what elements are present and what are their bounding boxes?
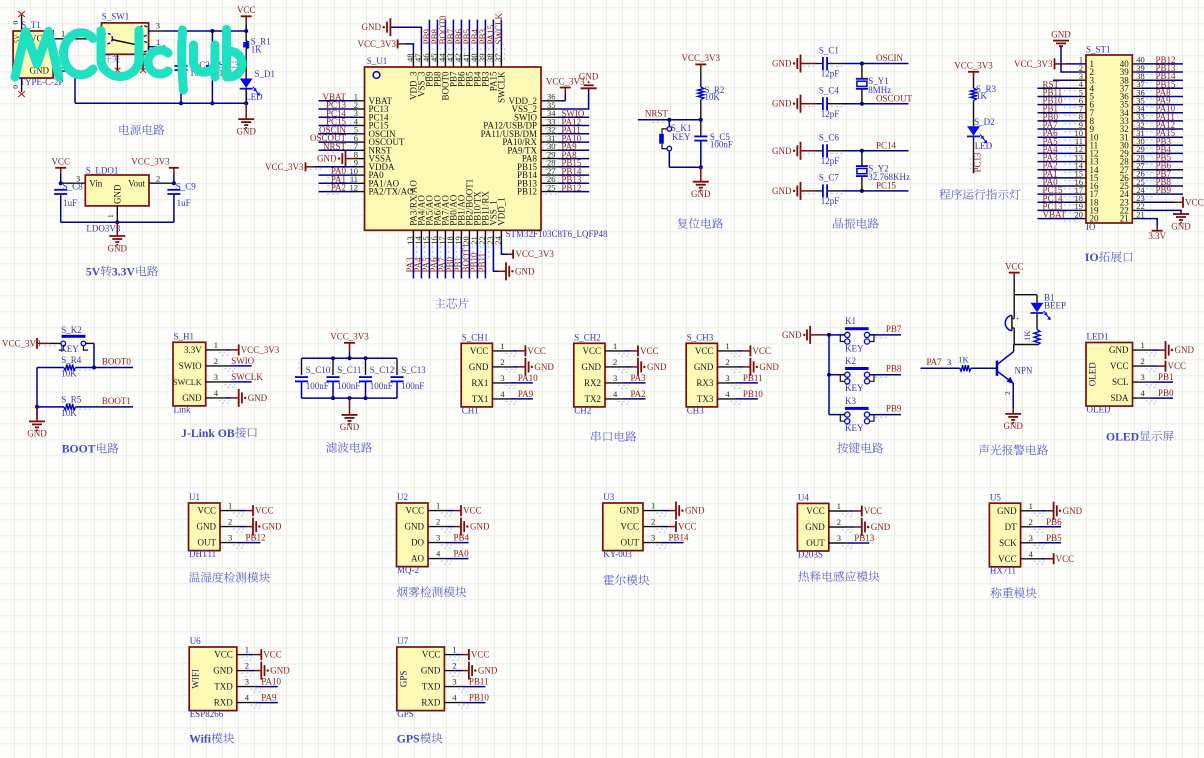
svg-text:1: 1: [500, 341, 504, 351]
svg-text:GND: GND: [1109, 345, 1129, 355]
junction bottom rail at LED: [244, 101, 248, 105]
capacitor S_C12 100nF: [359, 358, 394, 398]
U1 pin 25 PB12: [517, 182, 589, 196]
svg-text:GND: GND: [362, 22, 382, 32]
svg-text:PA2: PA2: [331, 183, 346, 193]
ST1 pin 16 row: [1038, 177, 1184, 191]
ST1 pin 6 row: [1038, 95, 1184, 109]
svg-text:SWCLK: SWCLK: [494, 12, 504, 44]
U1 pin 22 PB11/RX: [477, 191, 491, 279]
svg-text:GND: GND: [997, 506, 1017, 516]
svg-text:1uF: 1uF: [177, 198, 191, 208]
svg-text:S_D2: S_D2: [974, 117, 995, 127]
label J-Link OB port: [181, 427, 257, 440]
svg-text:S_SW1: S_SW1: [102, 12, 130, 22]
svg-text:3.3V: 3.3V: [112, 265, 136, 278]
svg-text:GND: GND: [620, 506, 640, 516]
ST1 pin 11 row: [1038, 136, 1184, 150]
ST1 pin 10 row: [1038, 128, 1184, 142]
wire OSCIN row: [843, 53, 909, 63]
svg-text:1: 1: [436, 501, 440, 511]
svg-text:3: 3: [245, 677, 249, 687]
capacitor S_C4 12pF: [803, 86, 845, 119]
ST1 pin 9 row: [1038, 120, 1184, 134]
U1 pin 10 PA0: [319, 166, 385, 180]
svg-text:PB11: PB11: [477, 253, 487, 273]
U1 pin 37 SWCLK: [493, 12, 507, 103]
svg-text:KY-003: KY-003: [603, 549, 632, 559]
svg-text:D203S: D203S: [798, 550, 823, 560]
svg-text:J-Link OB: J-Link OB: [181, 427, 235, 440]
U5 HX711: [989, 492, 1020, 575]
resistor 1K alarm: [1022, 329, 1040, 345]
svg-text:PC14: PC14: [876, 141, 897, 151]
svg-text:DT: DT: [1005, 522, 1017, 532]
svg-text:IO: IO: [1085, 251, 1099, 264]
keys left rail: [828, 335, 830, 415]
power flag VCC_3V3 filter: [330, 332, 369, 359]
label DHT11 module: [189, 572, 270, 583]
ground GND for LDO: [108, 222, 128, 253]
svg-text:VCC_3V3: VCC_3V3: [265, 162, 304, 172]
svg-text:PA2: PA2: [631, 389, 646, 399]
U1 pin 47 VSS_3: [362, 18, 427, 97]
wire T1 pin1 to switch: [53, 29, 101, 42]
svg-text:GPS: GPS: [398, 671, 408, 688]
svg-text:1: 1: [452, 645, 456, 655]
svg-text:VCC: VCC: [471, 650, 490, 660]
svg-text:GND: GND: [871, 522, 891, 532]
connector S_T1 TYPE-C-2P: [13, 20, 63, 87]
svg-text:5V: 5V: [86, 265, 101, 278]
wire BOOT0 net: [76, 357, 134, 370]
S_CH1 pin 4 TX1: [472, 389, 534, 404]
svg-text:VCC_3V3: VCC_3V3: [954, 61, 993, 71]
svg-text:VCC: VCC: [470, 346, 489, 356]
U1 pin 46 PB9: [421, 20, 435, 87]
svg-text:S_H1: S_H1: [174, 332, 195, 342]
svg-text:BOOT: BOOT: [62, 443, 96, 456]
pushbutton S_K1 KEY vertical: [659, 120, 691, 168]
junction boot rail BOOT1: [35, 405, 39, 409]
svg-text:S_ST1: S_ST1: [1086, 45, 1111, 55]
svg-text:S_D1: S_D1: [255, 69, 276, 79]
svg-text:2: 2: [500, 357, 504, 367]
svg-text:2: 2: [436, 517, 440, 527]
U1 pin 32 PA11/USB/DM: [481, 125, 590, 139]
pushbutton S_K2 KEY: [44, 325, 88, 354]
regulator S_LDO1 LDO3V3: [85, 165, 149, 233]
svg-text:PB14: PB14: [669, 533, 690, 543]
svg-text:VCC: VCC: [806, 506, 825, 516]
svg-text:GND: GND: [1175, 345, 1195, 355]
svg-text:SCK: SCK: [999, 538, 1017, 548]
svg-text:4: 4: [452, 693, 457, 703]
power flag VCC_3V3 for LDO out: [131, 156, 179, 183]
ground GND reset: [691, 167, 711, 199]
svg-text:GND: GND: [470, 522, 490, 532]
svg-text:1: 1: [228, 501, 232, 511]
svg-text:PB1: PB1: [1158, 372, 1174, 382]
ST1 pin 5 row: [1038, 87, 1184, 101]
ST1 pin 12 row: [1038, 144, 1184, 158]
svg-text:U4: U4: [798, 493, 809, 503]
LED1 pin 4 SDA: [1110, 388, 1174, 403]
power flag VCC_3V3 for ST1 pin1: [1014, 58, 1086, 69]
svg-text:S_LDO1: S_LDO1: [86, 165, 119, 175]
SW1 pin1 stub unconnected: [149, 37, 166, 48]
U1 pin 45 PB8: [429, 20, 443, 87]
svg-text:GND: GND: [772, 186, 792, 196]
junction OSCIN: [860, 62, 864, 66]
junction NRST at key: [667, 118, 671, 122]
svg-text:VCC: VCC: [463, 506, 482, 516]
U3 pin 3 OUT: [621, 533, 690, 548]
U3 KY-003: [603, 492, 643, 559]
U1 pin 7 NRST: [319, 141, 393, 155]
svg-text:BEEP: BEEP: [1044, 301, 1066, 311]
svg-text:1: 1: [837, 501, 841, 511]
U1 pin 17 PA7/AO: [437, 195, 451, 279]
svg-text:GND: GND: [213, 666, 233, 676]
svg-text:GND: GND: [317, 154, 337, 164]
svg-text:VCC: VCC: [237, 5, 256, 15]
svg-text:S_C7: S_C7: [819, 173, 840, 183]
capacitor S_C2 104: [175, 31, 210, 103]
ST1 pin 18 row: [1038, 193, 1130, 207]
label GPS module: [397, 733, 443, 746]
svg-text:MQ-2: MQ-2: [397, 565, 419, 575]
svg-text:K1: K1: [845, 316, 856, 326]
junction keys rail K2: [827, 373, 831, 377]
U1 pin 33 PA12/USB/DP: [483, 116, 589, 130]
svg-text:12pF: 12pF: [821, 156, 840, 166]
S_CH3 CH3: [686, 333, 717, 416]
svg-text:PB12: PB12: [517, 187, 537, 197]
svg-text:3: 3: [837, 533, 841, 543]
power flag VCC_3V3 indicator: [954, 61, 993, 88]
U1 pin 19 PB1/AO: [453, 194, 467, 278]
U1 pin 5 OSCIN: [319, 125, 397, 139]
svg-text:20: 20: [1075, 209, 1084, 219]
label power circuit: [120, 124, 165, 135]
svg-text:1: 1: [725, 341, 729, 351]
alarm mid wire collector node: [1014, 344, 1037, 347]
S_CH1 pin 2 GND: [469, 357, 554, 376]
switch label: [103, 54, 120, 62]
wire K3 to PB9: [829, 404, 902, 418]
wire SW1 pin3 to VCC rail: [149, 20, 247, 31]
reset bottom wire: [669, 166, 701, 168]
svg-text:PB7: PB7: [886, 324, 902, 334]
svg-text:1: 1: [245, 645, 249, 655]
svg-text:BOOT1: BOOT1: [102, 396, 131, 406]
svg-text:S_U1: S_U1: [367, 56, 388, 66]
S_CH1 CH1: [461, 333, 492, 416]
S_CH2 pin 2 GND: [582, 357, 667, 376]
svg-text:PB5: PB5: [1046, 533, 1062, 543]
svg-text:VCC: VCC: [527, 346, 546, 356]
svg-text:1: 1: [214, 340, 218, 350]
svg-text:GND: GND: [515, 266, 535, 276]
svg-text:3: 3: [1141, 372, 1145, 382]
svg-text:GND: GND: [1051, 30, 1071, 40]
ST1 pin 19 row: [1038, 201, 1129, 215]
wire PC14 row: [843, 141, 909, 151]
ST1 pin 7 row: [1038, 104, 1184, 118]
svg-text:PA9: PA9: [261, 693, 277, 703]
U1 pin 36 VDD_2: [509, 76, 586, 106]
svg-text:TX3: TX3: [697, 394, 714, 404]
svg-text:PB12: PB12: [561, 183, 581, 193]
svg-text:S_CH2: S_CH2: [574, 333, 601, 343]
U1 pin 4 PC15: [319, 116, 390, 130]
ground port for S_C4: [772, 95, 815, 113]
ST1 pin 17 row: [1038, 185, 1184, 199]
svg-text:PC13: PC13: [972, 152, 982, 173]
svg-text:SWCLK: SWCLK: [496, 71, 506, 103]
svg-text:VCC: VCC: [405, 506, 424, 516]
svg-text:GND: GND: [1063, 506, 1083, 516]
T1 bottom stub with no-ERC cross: [11, 78, 25, 97]
header S_ST1 IO body: [1086, 45, 1132, 232]
label 5V to 3.3V circuit: [86, 265, 158, 278]
S_CH3 pin 2 GND: [694, 357, 779, 376]
U4 pin 2 GND: [805, 517, 890, 536]
svg-text:VCC: VCC: [214, 650, 233, 660]
label alarm circuit: [979, 444, 1048, 455]
svg-text:RXD: RXD: [214, 698, 234, 708]
junction top rail at C3: [210, 29, 214, 33]
U1 pin 21 PB10/TX: [469, 191, 483, 279]
resistor S_R1 1K: [243, 31, 271, 79]
ground GND alarm: [1003, 408, 1023, 431]
svg-text:1: 1: [1029, 501, 1033, 511]
svg-text:10K: 10K: [704, 92, 720, 102]
resistor 1K base: [958, 354, 997, 371]
svg-text:VCC_3V3: VCC_3V3: [330, 332, 369, 342]
wire LDO pin2 Vout: [149, 173, 174, 183]
svg-text:SCL: SCL: [1112, 377, 1129, 387]
U1 DHT11: [189, 492, 221, 559]
T1 top stub with no-ERC cross: [11, 11, 25, 31]
S_CH2 pin 3 RX2: [584, 373, 646, 388]
svg-text:GND: GND: [236, 126, 256, 136]
svg-text:3.3V: 3.3V: [1148, 231, 1166, 241]
svg-text:HX711: HX711: [990, 565, 1016, 575]
led S_D1: [240, 69, 275, 103]
svg-text:4: 4: [436, 549, 441, 559]
wire PC15 row: [843, 181, 909, 191]
capacitor S_C10 100nF: [295, 358, 331, 398]
svg-text:Vout: Vout: [128, 178, 145, 188]
svg-text:PA9: PA9: [518, 389, 534, 399]
junction keys rail K1: [827, 333, 831, 337]
svg-text:TX1: TX1: [472, 394, 489, 404]
wire K2 to PB8: [829, 364, 902, 378]
junction bottom rail at C3: [210, 101, 214, 105]
svg-text:CH2: CH2: [574, 406, 591, 416]
svg-text:2: 2: [156, 173, 160, 183]
S_CH2 pin 1 VCC: [582, 341, 658, 357]
svg-text:VCC: VCC: [1168, 361, 1187, 371]
S_H1 pin 1 3.3V: [184, 340, 280, 356]
svg-text:32.768KHz: 32.768KHz: [868, 172, 910, 182]
U7 GPS: [397, 636, 445, 719]
U6 pin 3 TXD: [214, 677, 281, 692]
U1 pin 27 PB14: [517, 166, 589, 180]
svg-text:WIFI: WIFI: [191, 669, 201, 689]
svg-text:DO: DO: [411, 538, 424, 548]
svg-text:25: 25: [547, 182, 556, 192]
U5 pin 4 VCC: [998, 549, 1074, 565]
wire ST1 pin3: [1053, 79, 1086, 81]
U7 pin 3 TXD: [422, 677, 489, 692]
U5 pin 1 GND: [997, 501, 1082, 520]
svg-text:21: 21: [1120, 214, 1129, 224]
U1 pin 42 PB6: [453, 20, 467, 87]
label wifi module: [189, 733, 234, 746]
U2 pin 4 AO: [411, 549, 469, 564]
svg-text:2: 2: [1003, 391, 1012, 395]
U1 pin 48 VDD_3: [357, 39, 418, 100]
junction LDO gnd: [115, 220, 119, 224]
svg-text:2: 2: [245, 661, 249, 671]
svg-text:VCC_3V3: VCC_3V3: [515, 249, 554, 259]
U7 pin 2 GND: [421, 661, 498, 680]
svg-text:OLED: OLED: [1087, 405, 1111, 415]
U1 pin 3 PC14: [319, 108, 390, 122]
svg-text:100nF: 100nF: [710, 140, 733, 150]
svg-text:S_CH1: S_CH1: [462, 333, 489, 343]
svg-text:VCC: VCC: [640, 346, 659, 356]
power flag VCC for LDO: [51, 157, 70, 184]
svg-text:PB9: PB9: [886, 404, 902, 414]
svg-text:SDA: SDA: [1110, 393, 1129, 403]
svg-text:2: 2: [837, 517, 841, 527]
power flag VCC: [237, 5, 256, 31]
ground port for S_C6: [772, 142, 815, 160]
svg-text:BOOT0: BOOT0: [102, 357, 131, 367]
svg-text:LDO3V3: LDO3V3: [86, 224, 120, 234]
S_CH2 CH2: [574, 333, 605, 416]
svg-text:VCC: VCC: [263, 650, 282, 660]
U1 pin 8 VSSA: [317, 149, 392, 167]
U6 pin 2 GND: [213, 661, 290, 680]
svg-text:VCC_3V3: VCC_3V3: [682, 53, 721, 63]
svg-text:SWIO: SWIO: [179, 361, 202, 371]
svg-text:S_C9: S_C9: [176, 182, 197, 192]
svg-text:2: 2: [1141, 356, 1145, 366]
svg-text:VCC: VCC: [1005, 261, 1024, 271]
svg-text:GND: GND: [579, 71, 599, 81]
U1 pin 14 PA4/AO: [413, 195, 427, 279]
junction filter bottom at 365.5: [364, 396, 368, 400]
svg-text:GND: GND: [691, 189, 711, 199]
pushbutton K3 KEY: [840, 396, 874, 433]
U1 pin 23 VSS_1: [485, 200, 535, 280]
label MQ-2 module: [397, 586, 466, 597]
svg-text:3: 3: [228, 533, 232, 543]
svg-text:KEY: KEY: [672, 132, 691, 142]
U1 pin 12 PA2/TX/AO: [319, 182, 415, 196]
svg-text:3.3V: 3.3V: [184, 345, 202, 355]
svg-text:VCC: VCC: [678, 522, 697, 532]
svg-text:PB10: PB10: [743, 389, 764, 399]
U4 pin 3 OUT: [806, 533, 875, 548]
svg-text:1uF: 1uF: [63, 198, 77, 208]
svg-text:+: +: [1016, 315, 1020, 323]
label serial circuit: [591, 431, 636, 442]
U1 pin 1 VCC: [197, 501, 273, 516]
svg-text:S_C6: S_C6: [819, 133, 840, 143]
ST1 pin 8 row: [1038, 112, 1184, 126]
ground GND power rail: [236, 103, 256, 136]
capacitor S_C1 12pF: [803, 45, 845, 78]
svg-text:20: 20: [1090, 214, 1100, 224]
wire PA7 base: [921, 357, 960, 368]
mcu U1 STM32F103C8T6 body: [365, 56, 609, 239]
svg-text:1K: 1K: [976, 91, 988, 101]
filter top rail: [302, 357, 398, 359]
svg-text:4: 4: [1029, 549, 1034, 559]
ground GND boot: [27, 407, 47, 439]
svg-text:12pF: 12pF: [821, 69, 840, 79]
S_H1 pin 2 SWIO: [179, 356, 255, 371]
U1 pin 2 PC13: [319, 100, 390, 114]
svg-text:TXD: TXD: [422, 682, 441, 692]
svg-text:PB8: PB8: [886, 364, 902, 374]
U1 pin 39 PB3: [477, 20, 491, 87]
U1 pin 6 OSCOUT: [310, 133, 405, 147]
junction VCC rail: [244, 29, 248, 33]
alarm top wire: [1014, 294, 1037, 296]
svg-text:KEY: KEY: [60, 344, 79, 354]
junction BOOT0: [92, 366, 96, 370]
ground GND for ST1 pin22: [1132, 201, 1191, 231]
wire K2 to BOOT0: [86, 343, 94, 367]
svg-text:0: 0: [11, 21, 20, 25]
buzzer B1 BEEP: [1005, 295, 1019, 345]
U2 MQ-2: [397, 492, 429, 575]
svg-text:PB12: PB12: [246, 533, 266, 543]
svg-text:VCC: VCC: [582, 346, 601, 356]
svg-text:DHT11: DHT11: [189, 549, 216, 559]
ground GND for ST1 pin2: [1051, 30, 1086, 72]
svg-text:100nF: 100nF: [370, 381, 393, 391]
svg-text:PB6: PB6: [1046, 517, 1062, 527]
svg-text:PB0: PB0: [1158, 388, 1174, 398]
svg-text:GND: GND: [805, 522, 825, 532]
svg-text:GND: GND: [197, 522, 217, 532]
resistor S_R4 10K: [37, 355, 82, 378]
svg-text:1: 1: [613, 341, 617, 351]
svg-text:GND: GND: [27, 429, 47, 439]
junction filter top at 365.5: [364, 356, 368, 360]
svg-text:10K: 10K: [61, 368, 77, 378]
junction top rail at C2: [179, 29, 183, 33]
capacitor S_C3 104: [206, 31, 239, 103]
svg-text:VCC: VCC: [752, 346, 771, 356]
label program indicator: [939, 189, 1020, 200]
capacitor S_C11 100nF: [327, 358, 362, 398]
svg-text:GND: GND: [772, 59, 792, 69]
svg-text:4: 4: [725, 389, 730, 399]
capacitor S_C7 12pF: [803, 173, 845, 206]
svg-text:VCC: VCC: [620, 522, 639, 532]
U6 pin 4 RXD: [214, 693, 278, 708]
svg-text:1K: 1K: [1022, 330, 1032, 341]
